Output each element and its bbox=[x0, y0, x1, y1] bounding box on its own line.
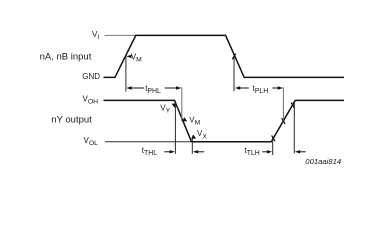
svg-text:nA, nB input: nA, nB input bbox=[40, 51, 92, 62]
svg-text:nY output: nY output bbox=[51, 115, 92, 126]
svg-text:001aai814: 001aai814 bbox=[305, 157, 341, 166]
svg-text:GND: GND bbox=[82, 72, 100, 81]
